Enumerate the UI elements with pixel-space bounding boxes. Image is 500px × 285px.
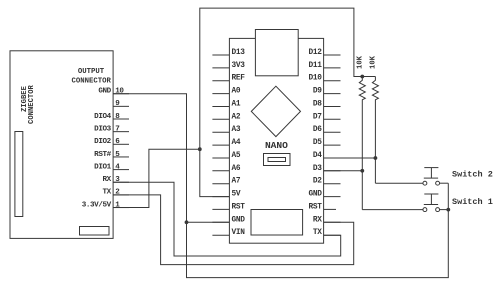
svg-text:9: 9	[115, 100, 120, 108]
node D3-R1	[360, 169, 364, 173]
svg-text:3.3V/5V: 3.3V/5V	[82, 201, 112, 209]
Nano left pin A7 stub	[212, 183, 229, 185]
Nano right pin D3 stub	[324, 170, 341, 172]
Nano left pin RST stub	[212, 208, 229, 210]
svg-text:CONNECTOR: CONNECTOR	[71, 77, 111, 85]
Nano USB connector	[255, 30, 298, 76]
wire ZigBee TX pin2 to Nano RX	[113, 195, 354, 265]
Nano right pin D2 stub	[324, 183, 341, 185]
Nano left pin labels	[232, 49, 246, 237]
Nano left pin VIN stub	[212, 234, 229, 236]
svg-text:D8: D8	[313, 101, 322, 109]
Nano right pin D5 stub	[324, 144, 341, 146]
node GND at Nano	[185, 220, 189, 224]
Nano left pin A0 stub	[212, 93, 229, 95]
svg-text:2: 2	[115, 189, 120, 197]
svg-text:A6: A6	[232, 165, 241, 173]
svg-text:A0: A0	[232, 88, 241, 96]
svg-text:DIO4: DIO4	[94, 113, 111, 121]
svg-text:D12: D12	[309, 49, 323, 57]
Nano left pin 5V stub	[212, 196, 229, 198]
connector J1 ZigBee box	[10, 51, 113, 239]
Nano left pin A4 stub	[212, 144, 229, 146]
switch S2 pushbutton	[423, 168, 448, 186]
svg-text:CONNECTOR: CONNECTOR	[28, 84, 36, 124]
svg-text:NANO: NANO	[265, 140, 288, 151]
Nano right pin stubs	[324, 55, 341, 235]
svg-text:5V: 5V	[232, 191, 241, 199]
ZigBee pin 9 stub	[113, 105, 129, 107]
Nano left pin A3 stub	[212, 131, 229, 133]
svg-text:A3: A3	[232, 126, 241, 134]
ZigBee pin 2 stub	[113, 194, 129, 196]
svg-text:3: 3	[115, 176, 120, 184]
ZigBee pin 4 stub	[113, 169, 129, 171]
svg-text:Switch 2: Switch 2	[452, 170, 493, 180]
ZigBee pin stubs	[113, 94, 129, 208]
svg-text:REF: REF	[232, 75, 246, 83]
svg-text:A1: A1	[232, 101, 241, 109]
Nano right pin D8 stub	[324, 106, 341, 108]
resistor R2 10K	[372, 77, 378, 184]
svg-text:DIO3: DIO3	[94, 126, 111, 134]
svg-text:GND: GND	[309, 191, 323, 199]
svg-text:GND: GND	[98, 88, 111, 96]
node switch1 common	[446, 208, 450, 212]
Nano right pin D6 stub	[324, 131, 341, 133]
svg-text:10K: 10K	[356, 55, 364, 69]
svg-text:GND: GND	[232, 216, 246, 224]
wire ZigBee RX pin3 to Nano TX	[113, 182, 341, 256]
ZigBee pin 1 stub	[113, 207, 129, 209]
wire GND branch to Nano GND	[187, 221, 230, 223]
svg-text:RST: RST	[232, 203, 246, 211]
Nano left pin GND stub	[212, 221, 229, 223]
svg-text:OUTPUT: OUTPUT	[78, 68, 105, 76]
svg-text:Switch 1: Switch 1	[452, 197, 493, 207]
IC U1 Arduino Nano body	[229, 38, 323, 243]
svg-text:VIN: VIN	[232, 229, 246, 237]
svg-text:TX: TX	[313, 229, 322, 237]
Nano right pin GND stub	[324, 196, 341, 198]
ZigBee pin 8 stub	[113, 118, 129, 120]
ZigBee pin 6 stub	[113, 143, 129, 145]
svg-text:7: 7	[115, 126, 120, 134]
svg-text:D11: D11	[309, 62, 323, 70]
svg-text:D5: D5	[313, 139, 322, 147]
svg-text:RST: RST	[309, 203, 323, 211]
svg-text:D7: D7	[313, 113, 322, 121]
ZigBee pin 3 stub	[113, 181, 129, 183]
svg-text:TX: TX	[102, 189, 111, 197]
resistor R1 10K	[359, 77, 365, 210]
Nano right pin RST stub	[324, 208, 336, 210]
svg-text:6: 6	[115, 138, 120, 146]
svg-text:D9: D9	[313, 88, 322, 96]
Nano right pin RX stub	[324, 221, 341, 223]
Nano left pin A6 stub	[212, 170, 229, 172]
svg-text:10K: 10K	[369, 55, 377, 69]
Nano logo diamond	[251, 86, 300, 136]
ZigBee pin name labels	[82, 88, 112, 210]
svg-text:4: 4	[115, 163, 120, 171]
Nano left pin D13 stub	[212, 54, 229, 56]
Nano right pin D12 stub	[324, 54, 341, 56]
ZigBee pin 5 stub	[113, 156, 129, 158]
svg-text:RX: RX	[102, 176, 111, 184]
Nano left pin stubs	[212, 55, 229, 235]
Nano left pin A2 stub	[212, 118, 229, 120]
ZigBee pin numbers	[115, 88, 124, 210]
svg-text:D6: D6	[313, 126, 322, 134]
wire Nano D3 to R1	[324, 170, 363, 172]
svg-text:8: 8	[115, 113, 120, 121]
svg-text:DIO2: DIO2	[94, 138, 111, 146]
wire R2 to Switch2	[375, 182, 423, 184]
svg-text:D10: D10	[309, 75, 323, 83]
node R1 top	[360, 75, 364, 79]
Nano crystal inner	[268, 158, 286, 162]
svg-text:10: 10	[115, 88, 124, 96]
svg-text:A4: A4	[232, 139, 241, 147]
Nano right pin D7 stub	[324, 118, 341, 120]
svg-text:A7: A7	[232, 178, 241, 186]
wire 5V net: Nano 5V to pullup resistors	[200, 8, 376, 197]
svg-text:A5: A5	[232, 152, 241, 160]
Nano right pin D9 stub	[324, 93, 341, 95]
ZigBee card-edge slot	[15, 132, 23, 217]
wire Nano D4 to R2	[324, 157, 376, 159]
Nano left pin A1 stub	[212, 106, 229, 108]
Nano left pin 3V3 stub	[212, 67, 229, 69]
svg-text:3V3: 3V3	[232, 62, 246, 70]
node junction dots	[185, 75, 451, 225]
Nano right pin D4 stub	[324, 157, 341, 159]
node D4-R2	[374, 156, 378, 160]
svg-text:1: 1	[115, 201, 120, 209]
wire GND net: ZigBee GND pin10 down and around to switches	[113, 94, 448, 278]
ZigBee pin 10 stub	[113, 93, 129, 95]
svg-text:RX: RX	[313, 216, 322, 224]
switch S1 pushbutton	[423, 194, 448, 212]
Nano right pin D10 stub	[324, 80, 341, 82]
svg-text:D2: D2	[313, 178, 322, 186]
svg-text:RST#: RST#	[94, 151, 111, 159]
svg-text:A2: A2	[232, 113, 241, 121]
Nano left pin REF stub	[212, 80, 229, 82]
svg-text:DIO1: DIO1	[94, 163, 111, 171]
Nano MCU chip	[251, 210, 303, 236]
ZigBee bottom tab	[80, 227, 110, 236]
wire 5V branch to ZigBee 3.3V/5V pin 1	[113, 149, 200, 207]
Nano right pin labels	[309, 49, 323, 237]
Nano right pin D11 stub	[324, 67, 341, 69]
Nano crystal outer	[264, 154, 291, 166]
Nano right pin TX stub	[324, 234, 341, 236]
Nano left pin A5 stub	[212, 157, 229, 159]
svg-text:5: 5	[115, 151, 120, 159]
svg-text:D3: D3	[313, 165, 322, 173]
svg-text:D4: D4	[313, 152, 322, 160]
node 5V branch T	[198, 147, 202, 151]
svg-text:D13: D13	[232, 49, 246, 57]
wire R1 to Switch1	[362, 209, 423, 211]
ZigBee pin 7 stub	[113, 131, 129, 133]
